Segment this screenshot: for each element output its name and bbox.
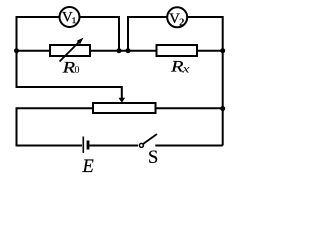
node: junction dot V2-loop left (126, 48, 131, 53)
voltmeter V1 (60, 7, 80, 27)
svg-text:S: S (148, 148, 158, 168)
wire: bottom wire right segment (155, 145, 222, 147)
voltmeter V2 (167, 7, 187, 27)
svg-text:1: 1 (72, 15, 76, 25)
rheostat (slide resistor box) (93, 103, 156, 113)
node: junction dot rheostat right (220, 106, 225, 111)
wire: bottom wire left segment (16, 145, 83, 147)
switch S: lever (143, 134, 157, 144)
svg-text:E: E (82, 157, 94, 177)
svg-text:R: R (61, 60, 75, 77)
resistor R0 (box) (50, 45, 90, 56)
wire: slider arrowhead onto rheostat (119, 98, 126, 103)
svg-text:0: 0 (75, 65, 80, 76)
wire: rheostat horizontal wire (16, 107, 223, 109)
node: junction dot left main wire (14, 48, 19, 53)
battery E: short thick plate (87, 141, 90, 150)
wire: slider tap wire from left vertical to rheostat slider (16, 87, 122, 99)
resistor R0 adjustment arrow (60, 41, 81, 62)
wire: bottom wire middle segment (battery to switch) (89, 145, 138, 147)
wire: lower-left vertical (16, 108, 18, 146)
wire: main horizontal wire through R0 and Rx (16, 50, 223, 52)
switch S: pivot circle (139, 143, 143, 147)
node: junction dot right main wire (220, 48, 225, 53)
wire: top-left loop (left vertical x=16.5 down to slider corner, top wire to x=119, down to main wire) (17, 17, 120, 88)
svg-text:x: x (181, 64, 191, 76)
battery E: long plate (82, 137, 84, 154)
svg-text:2: 2 (179, 17, 185, 29)
wire: top-right loop (up from main wire at x=128, top wire, right vertical down to bottom) (128, 17, 223, 146)
resistor Rx (box) (157, 45, 198, 56)
node: junction dot V1-loop right (117, 48, 122, 53)
